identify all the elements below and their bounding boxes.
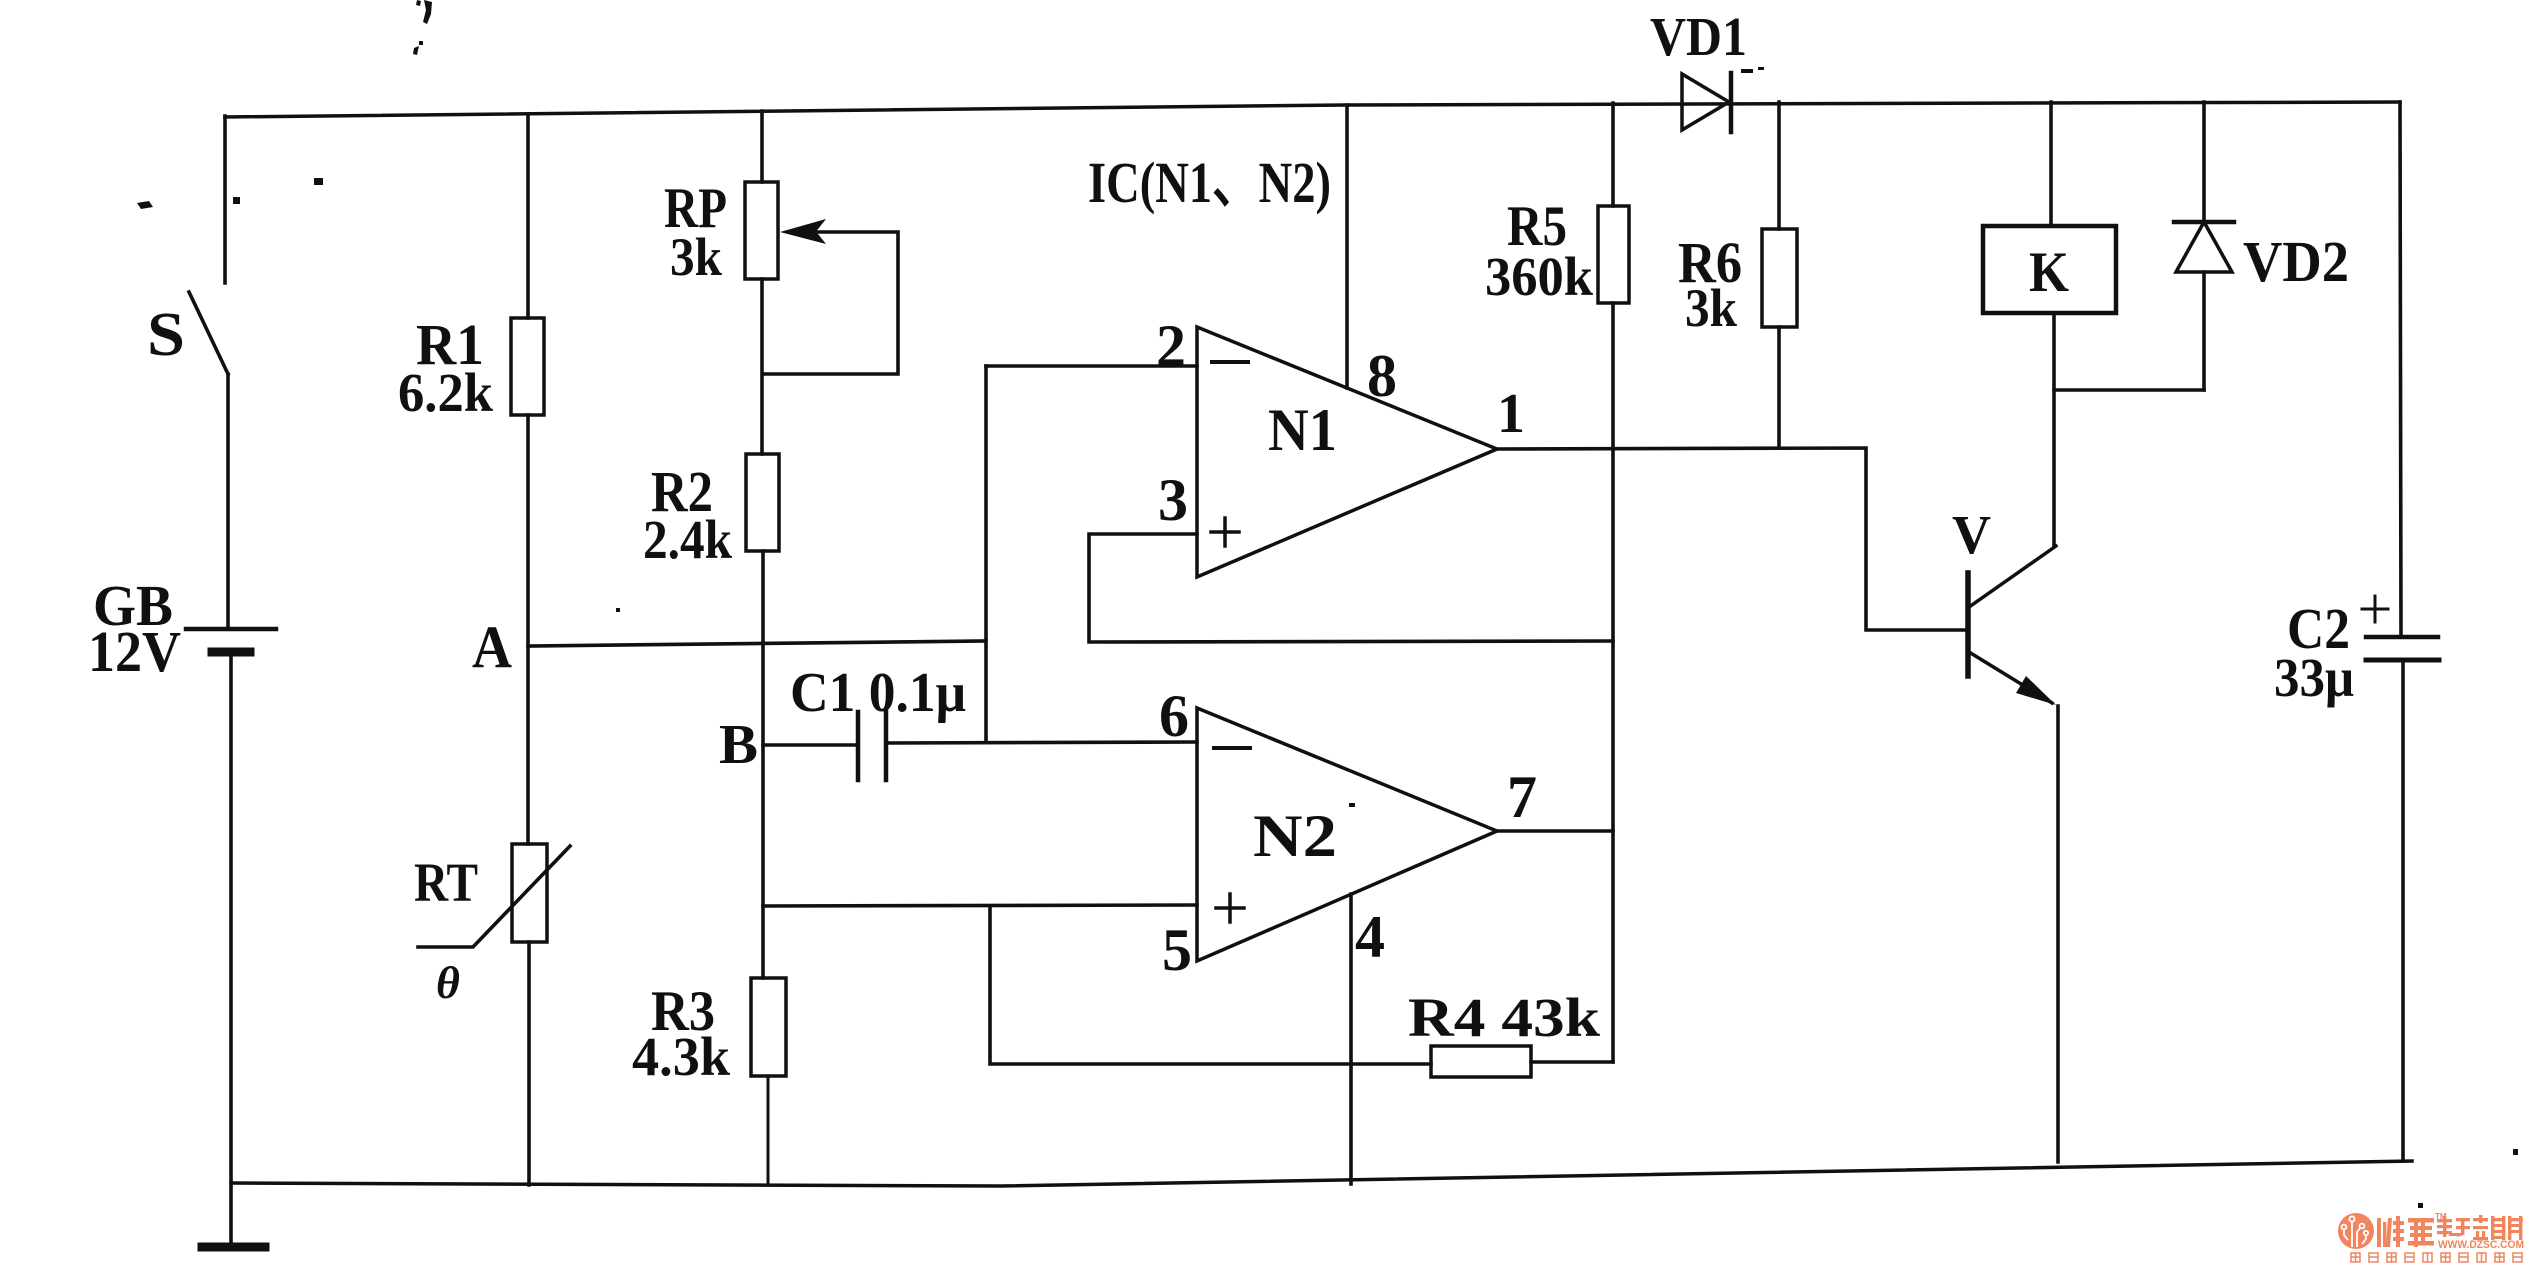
resistor R1 (511, 318, 544, 415)
wire R2 through A and B to R3 (761, 551, 765, 978)
svg-text:WWW.DZSC.COM: WWW.DZSC.COM (2438, 1239, 2524, 1251)
wire R4 left to pin 5 (990, 906, 1431, 1064)
wire top rail to relay K (2049, 102, 2053, 226)
svg-text:RT: RT (414, 852, 478, 913)
resistor R3 (751, 978, 786, 1076)
thermistor RT diagonal (418, 846, 570, 947)
switch S (189, 292, 228, 374)
scan dot near watermark (2418, 1203, 2423, 1208)
svg-text:360k: 360k (1485, 246, 1593, 307)
transistor V emitter (1969, 652, 2052, 703)
wire K to collector (2052, 313, 2056, 545)
svg-text:5: 5 (1162, 917, 1192, 983)
svg-text:3: 3 (1158, 467, 1188, 533)
wire to VD2 anode (2054, 388, 2204, 392)
wire left rail (223, 116, 227, 283)
svg-text:6.2k: 6.2k (398, 362, 493, 423)
op-amp N2 minus sign pin6 (1214, 746, 1250, 750)
wire node A to pin2 riser (984, 366, 988, 742)
svg-text:N1: N1 (1268, 397, 1337, 463)
resistor R4 (1431, 1046, 1531, 1077)
wire R1 to node A to RT (526, 415, 530, 844)
svg-text:3k: 3k (670, 227, 722, 287)
node B wire (763, 743, 858, 747)
wire N1 output pin 1 (1497, 448, 1967, 630)
svg-text:K: K (2029, 241, 2069, 304)
svg-text:C1 0.1μ: C1 0.1μ (790, 662, 966, 724)
watermark logo circle (2338, 1213, 2374, 1249)
capacitor C2 plates (2366, 635, 2438, 640)
capacitor C1 (856, 712, 861, 780)
svg-text:7: 7 (1507, 764, 1537, 830)
wire top rail to RP (760, 111, 764, 182)
scan speck near A wire (616, 608, 620, 612)
wire battery to bottom rail (229, 656, 233, 1244)
watermark text weiku (2377, 1216, 2434, 1247)
thermistor RT (512, 844, 547, 942)
wire RP to R2 (760, 279, 764, 454)
svg-text:6: 6 (1159, 683, 1189, 749)
svg-text:33μ: 33μ (2274, 647, 2354, 708)
scan specks (314, 178, 323, 185)
svg-text:R4 43k: R4 43k (1408, 987, 1600, 1048)
wire C1 to N2 pin 6 (886, 742, 1197, 743)
transistor V emitter arrowhead (2016, 676, 2056, 705)
svg-text:3k: 3k (1685, 278, 1737, 338)
wire C2 to bottom rail (2401, 662, 2405, 1161)
wire top rail (225, 102, 2400, 117)
op-amp N2 (1197, 708, 1497, 961)
wire R3 to bottom rail (767, 1076, 770, 1185)
transistor V base bar (1965, 573, 1971, 676)
relay K coil box (1983, 226, 2116, 313)
wire pin 8 (1345, 105, 1349, 388)
svg-text:1: 1 (1497, 383, 1525, 445)
op-amp N1 (1197, 327, 1497, 577)
diode VD2 (2202, 272, 2206, 390)
scan artifact top (416, 0, 432, 24)
resistor R6 (1762, 229, 1797, 327)
transistor V collector (1969, 546, 2056, 607)
RP wiper arrow (763, 232, 898, 374)
svg-text:12V: 12V (88, 619, 181, 684)
svg-text:N2: N2 (1253, 803, 1337, 869)
svg-text:8: 8 (1367, 343, 1397, 409)
wire emitter to bottom rail (2056, 706, 2060, 1162)
op-amp N1 plus sign pin3 (1211, 518, 1239, 546)
wire pin 3 feedback (1089, 534, 1613, 642)
svg-text:2: 2 (1156, 313, 1186, 379)
wire R4 right (1531, 1060, 1613, 1064)
watermark text dianzishichangwang (2437, 1215, 2523, 1240)
scan speck bottom right (2513, 1149, 2518, 1155)
potentiometer RP (745, 182, 778, 279)
svg-text:4: 4 (1355, 904, 1385, 970)
node A wire (528, 641, 986, 646)
wire top rail to R5 (1611, 103, 1615, 206)
svg-text:VD1: VD1 (1650, 6, 1747, 67)
resistor R5 (1598, 206, 1629, 303)
svg-text:A: A (472, 614, 512, 680)
wire pin 4 to bottom rail (1349, 894, 1353, 1184)
svg-text:B: B (719, 714, 758, 776)
wire pin 2 (986, 364, 1197, 368)
wire R5 down through junctions to R4 (1611, 303, 1615, 1062)
resistor R2 (746, 454, 779, 551)
wire top rail to R6 (1777, 102, 1781, 229)
op-amp N2 plus sign pin5 (1216, 894, 1244, 922)
battery GB long plate (186, 627, 276, 632)
svg-text:V: V (1952, 504, 1991, 565)
svg-text:S: S (147, 301, 185, 369)
wire top rail right corner to C2 (2400, 102, 2401, 635)
svg-text:2.4k: 2.4k (643, 509, 732, 570)
op-amp N1 minus sign pin2 (1212, 360, 1248, 364)
C2 plus sign (2362, 596, 2388, 622)
wire bottom rail (231, 1161, 2412, 1186)
wire RT to bottom rail (527, 942, 531, 1185)
svg-text:4.3k: 4.3k (632, 1026, 730, 1087)
svg-text:VD2: VD2 (2243, 229, 2349, 294)
battery GB short plate (212, 648, 250, 657)
svg-text:θ: θ (436, 957, 460, 1008)
wire pin 7 (1497, 829, 1613, 833)
ground (202, 1243, 265, 1252)
scan speck near N2 (1349, 803, 1355, 807)
svg-text:IC(N1、N2): IC(N1、N2) (1088, 150, 1331, 215)
wire pin 5 (763, 905, 1197, 906)
diode VD1 (1682, 74, 1729, 130)
wire top rail to R1 (526, 116, 530, 318)
wire R6 to output row (1777, 327, 1781, 448)
wire switch to battery (226, 374, 230, 629)
watermark slogan (2351, 1253, 2522, 1262)
